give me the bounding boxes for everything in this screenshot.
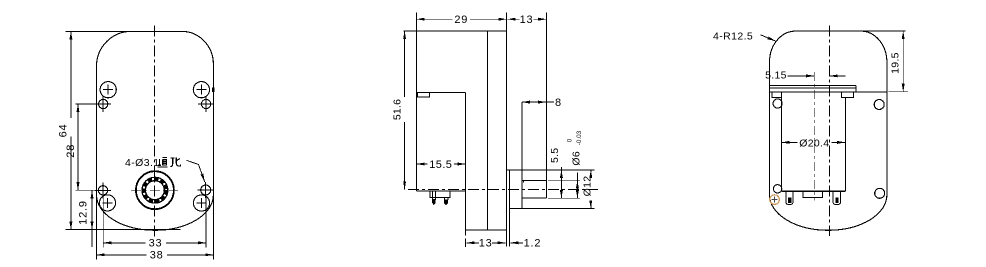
screw head circle bottom-left — [99, 195, 115, 211]
dimension 38 extension line left — [96, 195, 98, 260]
motor can top edge — [417, 91, 466, 93]
dimension Ø12 line — [590, 170, 592, 172]
svg-text:12.9: 12.9 — [78, 200, 90, 225]
shaft knurl hatch ring — [144, 179, 167, 202]
dimension 64 line lower segment — [70, 137, 72, 230]
dimension 12.9 line — [91, 190, 93, 229]
shaft Ø6 extension line bottom — [548, 197, 580, 199]
gearbox bottom edge — [466, 229, 507, 231]
motor can bottom tab — [803, 191, 822, 197]
back view mounting hole top-right — [874, 100, 884, 110]
dimension 19.5 line — [902, 31, 904, 92]
svg-text:38: 38 — [150, 250, 164, 262]
dimension 28 line — [77, 104, 79, 190]
gearbox top edge + 51.6 extension — [404, 30, 507, 32]
back view body centerline — [829, 26, 831, 237]
svg-text:64: 64 — [57, 124, 69, 138]
label 4-Ø3.1 through-hole leader — [187, 160, 205, 182]
svg-text:5.15: 5.15 — [765, 70, 787, 82]
svg-text:15.5: 15.5 — [429, 159, 452, 171]
shaft Ø6 extension line top — [548, 179, 580, 181]
motor terminal pin right — [443, 197, 445, 200]
dimension 51.6 line lower — [404, 122, 406, 189]
dimension 5.15 line left — [788, 75, 815, 77]
svg-text:4-R12.5: 4-R12.5 — [713, 31, 753, 43]
back view mounting hole top-left — [773, 99, 782, 108]
plate bottom edge full width — [770, 91, 887, 93]
dimension 38 line — [97, 254, 147, 256]
back view mounting hole bottom-right — [875, 188, 885, 198]
dimension 5.15 line right — [830, 75, 846, 77]
output shaft top edge — [522, 179, 547, 181]
dimension 33 extension line right — [205, 196, 207, 248]
dimension 29 line left — [417, 18, 453, 20]
svg-text:51.6: 51.6 — [392, 99, 404, 120]
svg-text:29: 29 — [454, 14, 468, 26]
dimension 28 extension line lower — [76, 189, 98, 191]
output boss front face + 8 extension — [521, 102, 523, 208]
dimension 33 extension line left — [102, 196, 104, 248]
svg-text:4-Ø3.1: 4-Ø3.1 — [125, 157, 160, 169]
dimension 15.5 line — [417, 163, 428, 165]
svg-text:19.5: 19.5 — [890, 52, 902, 74]
dimension 28 extension line upper — [76, 103, 99, 105]
gearbox back edge / motor mounting face — [465, 92, 467, 230]
motor can crimp tab (side) — [417, 92, 429, 97]
output boss top edge + Ø12 extension — [507, 169, 595, 171]
front view shaft horizontal centerline — [131, 189, 178, 191]
dimension 64 extension line top — [66, 30, 129, 32]
dimension Ø6 line — [576, 173, 578, 181]
plate right slot tab — [842, 92, 854, 98]
dimension Ø20.4 line left — [782, 141, 798, 143]
side view shaft centerline — [408, 188, 598, 190]
gearbox housing step line — [487, 31, 489, 230]
front view vertical centerline — [153, 26, 155, 237]
motor can left edge — [781, 92, 783, 191]
svg-text:28: 28 — [65, 144, 77, 158]
output shaft circle (Ø6) — [145, 181, 164, 200]
polarity mark cross — [772, 199, 778, 201]
svg-text:Ø12: Ø12 — [581, 176, 593, 197]
svg-text:-0.03: -0.03 — [576, 130, 583, 145]
svg-text:5.5: 5.5 — [549, 148, 561, 164]
svg-text:13: 13 — [520, 14, 534, 26]
dimension 64 line upper segment — [70, 31, 72, 118]
output shaft tip face + 13/8 extension — [545, 13, 547, 199]
plate step — [855, 86, 857, 92]
shaft knurl ring outer — [142, 177, 168, 203]
dimension 5.5 line — [560, 167, 562, 170]
screw head circle bottom-right — [193, 195, 209, 211]
motor can bottom edge — [417, 190, 466, 192]
polarity mark circle (colored) — [770, 195, 780, 205]
motor terminal pin left — [431, 191, 433, 200]
back view mounting hole bottom-left — [773, 185, 781, 193]
dimension 51.6 line upper — [404, 31, 406, 97]
mounting hole Ø3.1 bottom-right — [201, 185, 211, 195]
motor mounting plate hem top — [770, 85, 856, 87]
dimension 13 line (bottom) — [467, 242, 475, 244]
parting line tick on right edge — [212, 87, 215, 92]
front view: gearbox body outline — [97, 31, 214, 230]
dimension 19.5 extension line top — [862, 30, 906, 32]
output boss bottom edge + Ø12 extension — [509, 207, 594, 209]
output shaft bottom edge — [522, 197, 547, 199]
svg-text:33: 33 — [149, 238, 163, 250]
shaft groove notch — [522, 180, 524, 182]
output shaft boss circle (outer Ø12) — [136, 171, 174, 209]
svg-text:1.2: 1.2 — [524, 238, 542, 250]
svg-text:8: 8 — [555, 97, 562, 109]
mounting hole Ø3.1 bottom-left — [98, 186, 107, 195]
back view: gearbox body outline — [770, 31, 887, 230]
dimension 8 line — [522, 101, 547, 103]
front bearing plate (1.2 thick) — [508, 170, 510, 247]
svg-text:0: 0 — [567, 138, 574, 142]
dimension Ø20.4 line right — [832, 141, 846, 143]
plate left slot tab — [772, 92, 781, 98]
motor mounting plate hem lower — [770, 87, 856, 89]
motor terminal right (back) — [833, 191, 841, 204]
motor terminal left (back) — [786, 191, 793, 204]
dimension 1.2 line — [510, 242, 517, 244]
dimension 33 line — [103, 242, 145, 244]
dimension 29 line right — [470, 18, 507, 20]
svg-text:13: 13 — [479, 238, 493, 250]
screw head circle top-left — [100, 82, 116, 98]
screw head circle top-right — [193, 82, 209, 98]
gearbox front face + extensions — [506, 13, 508, 247]
label 4-R12.5 leader — [761, 35, 776, 41]
dimension 13 (bottom) extension line — [465, 194, 467, 248]
dimension 29 extension line — [416, 12, 418, 92]
motor centerline — [813, 72, 815, 200]
dimension 19.5 extension line bottom — [889, 91, 908, 93]
mounting hole Ø3.1 top-left — [99, 99, 108, 108]
dimension 13 line (top) — [508, 18, 520, 20]
CJK text "through hole" drawn as strokes — [157, 157, 180, 167]
dimension 64 / 12.9 extension line bottom — [66, 229, 181, 231]
dimension 38 extension line right — [212, 195, 214, 260]
motor terminal base block — [430, 191, 450, 197]
motor can right edge — [844, 97, 846, 191]
side view: motor can left edge — [416, 92, 418, 191]
svg-text:Ø6: Ø6 — [570, 151, 582, 166]
svg-text:Ø20.4: Ø20.4 — [799, 137, 829, 149]
mounting hole Ø3.1 top-right — [201, 99, 210, 108]
motor can bottom edge — [782, 190, 846, 192]
